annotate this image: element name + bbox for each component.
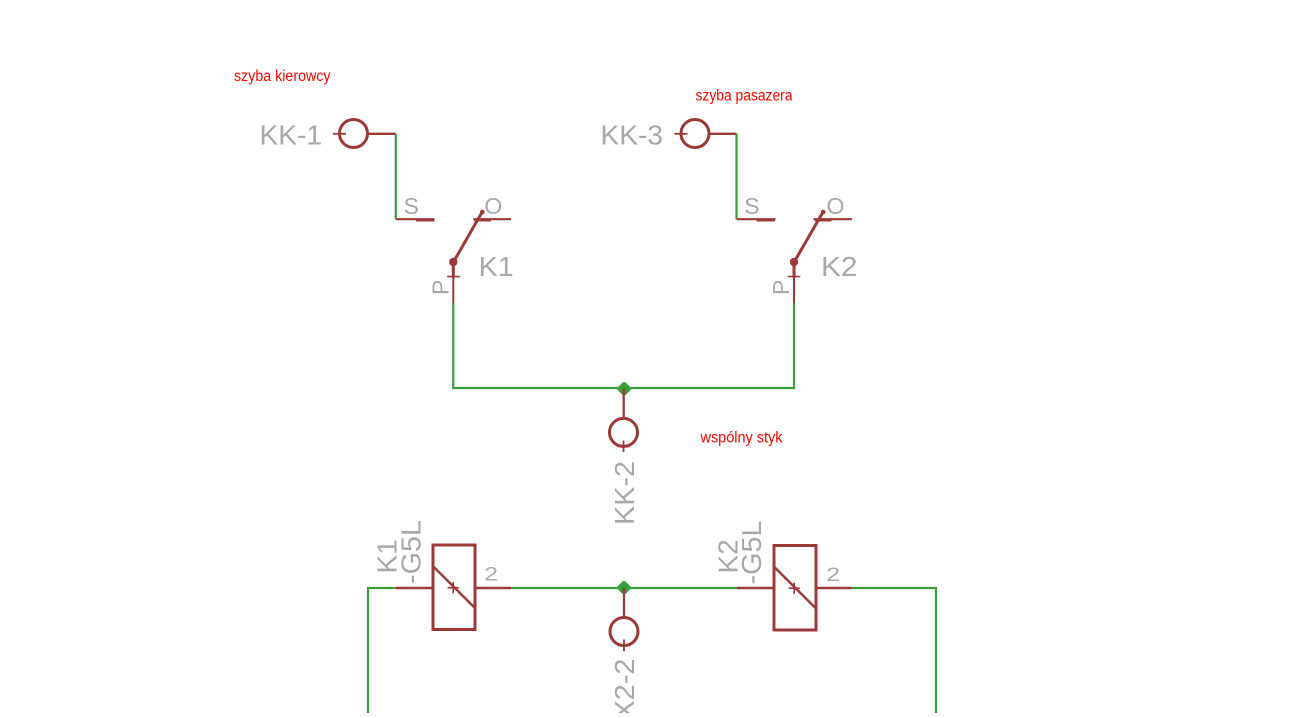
wire KK-1 to K1 switch S: [395, 134, 397, 220]
switch K1 pin O: [473, 193, 511, 220]
svg-text:szyba kierowcy: szyba kierowcy: [234, 68, 331, 85]
connector pin KK-2: [610, 418, 638, 452]
relay K2 coil label (rotated): [713, 521, 768, 585]
svg-text:O: O: [827, 193, 845, 219]
svg-text:KK-1: KK-1: [260, 120, 323, 151]
svg-text:P: P: [768, 280, 794, 295]
wire K2 P to bus: [793, 303, 795, 389]
svg-text:K2: K2: [821, 251, 858, 282]
switch K1 pin S: [396, 193, 435, 220]
pin stub to X2-2: [623, 588, 625, 618]
relay K1 coil label (rotated): [372, 520, 427, 584]
svg-text:S: S: [404, 193, 419, 219]
svg-text:-G5L: -G5L: [396, 520, 427, 584]
svg-text:O: O: [484, 193, 502, 219]
pin stub to KK-2: [623, 389, 625, 419]
svg-text:szyba pasazera: szyba pasazera: [696, 88, 793, 105]
connector pin KK-1: [333, 120, 396, 148]
switch K2 arm: [790, 210, 826, 266]
connector pin KK-3: [675, 120, 737, 148]
wire KK-3 to K2 switch S: [735, 134, 737, 220]
connector pin X2-2: [610, 618, 638, 652]
svg-text:S: S: [744, 193, 759, 219]
junction (top bus): [616, 381, 632, 397]
svg-text:wspólny styk: wspólny styk: [700, 429, 783, 446]
relay K2 coil: [737, 546, 852, 631]
wire left drop: [368, 588, 396, 713]
svg-text:KK-2: KK-2: [609, 461, 640, 525]
wire K1 coil to center junction: [511, 587, 737, 589]
svg-text:K1: K1: [479, 251, 514, 282]
switch K2 pin P: [768, 262, 800, 303]
svg-text:2: 2: [826, 564, 840, 586]
switch K1 pin P: [428, 262, 460, 303]
svg-text:KK-3: KK-3: [601, 120, 664, 151]
switch K1 arm: [449, 210, 485, 266]
wire right drop: [852, 588, 936, 713]
svg-text:-G5L: -G5L: [736, 521, 767, 585]
wire K1 P to bus: [452, 303, 454, 389]
junction (bottom bus): [616, 580, 632, 596]
switch K2 pin S: [737, 193, 776, 220]
svg-text:2: 2: [484, 563, 498, 585]
wire common bus (top): [452, 387, 795, 389]
svg-text:P: P: [428, 280, 454, 295]
relay K1 coil: [396, 545, 511, 630]
svg-text:X2-2: X2-2: [609, 659, 640, 714]
switch K2 pin O: [813, 193, 852, 220]
